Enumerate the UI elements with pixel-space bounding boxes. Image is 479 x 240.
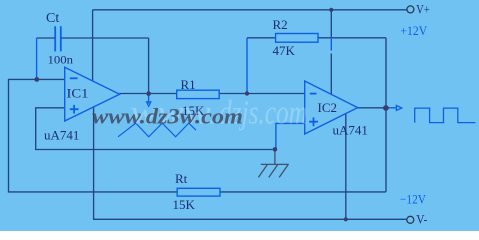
svg-text:uA741: uA741	[44, 128, 79, 143]
svg-text:15K: 15K	[173, 197, 196, 212]
svg-text:www.dz3w.com: www.dz3w.com	[92, 103, 243, 128]
svg-text:Rt: Rt	[175, 171, 188, 186]
svg-text:uA741: uA741	[333, 123, 368, 138]
svg-text:V+: V+	[416, 2, 429, 17]
svg-text:V-: V-	[416, 212, 427, 227]
svg-text:100n: 100n	[48, 53, 74, 67]
svg-text:IC1: IC1	[67, 86, 89, 101]
svg-text:R2: R2	[273, 17, 288, 32]
svg-text:47K: 47K	[273, 43, 296, 58]
svg-text:Ct: Ct	[46, 11, 59, 26]
svg-text:R1: R1	[181, 77, 196, 92]
svg-text:+12V: +12V	[400, 23, 427, 38]
svg-text:−12V: −12V	[400, 191, 427, 206]
svg-text:IC2: IC2	[318, 100, 338, 115]
